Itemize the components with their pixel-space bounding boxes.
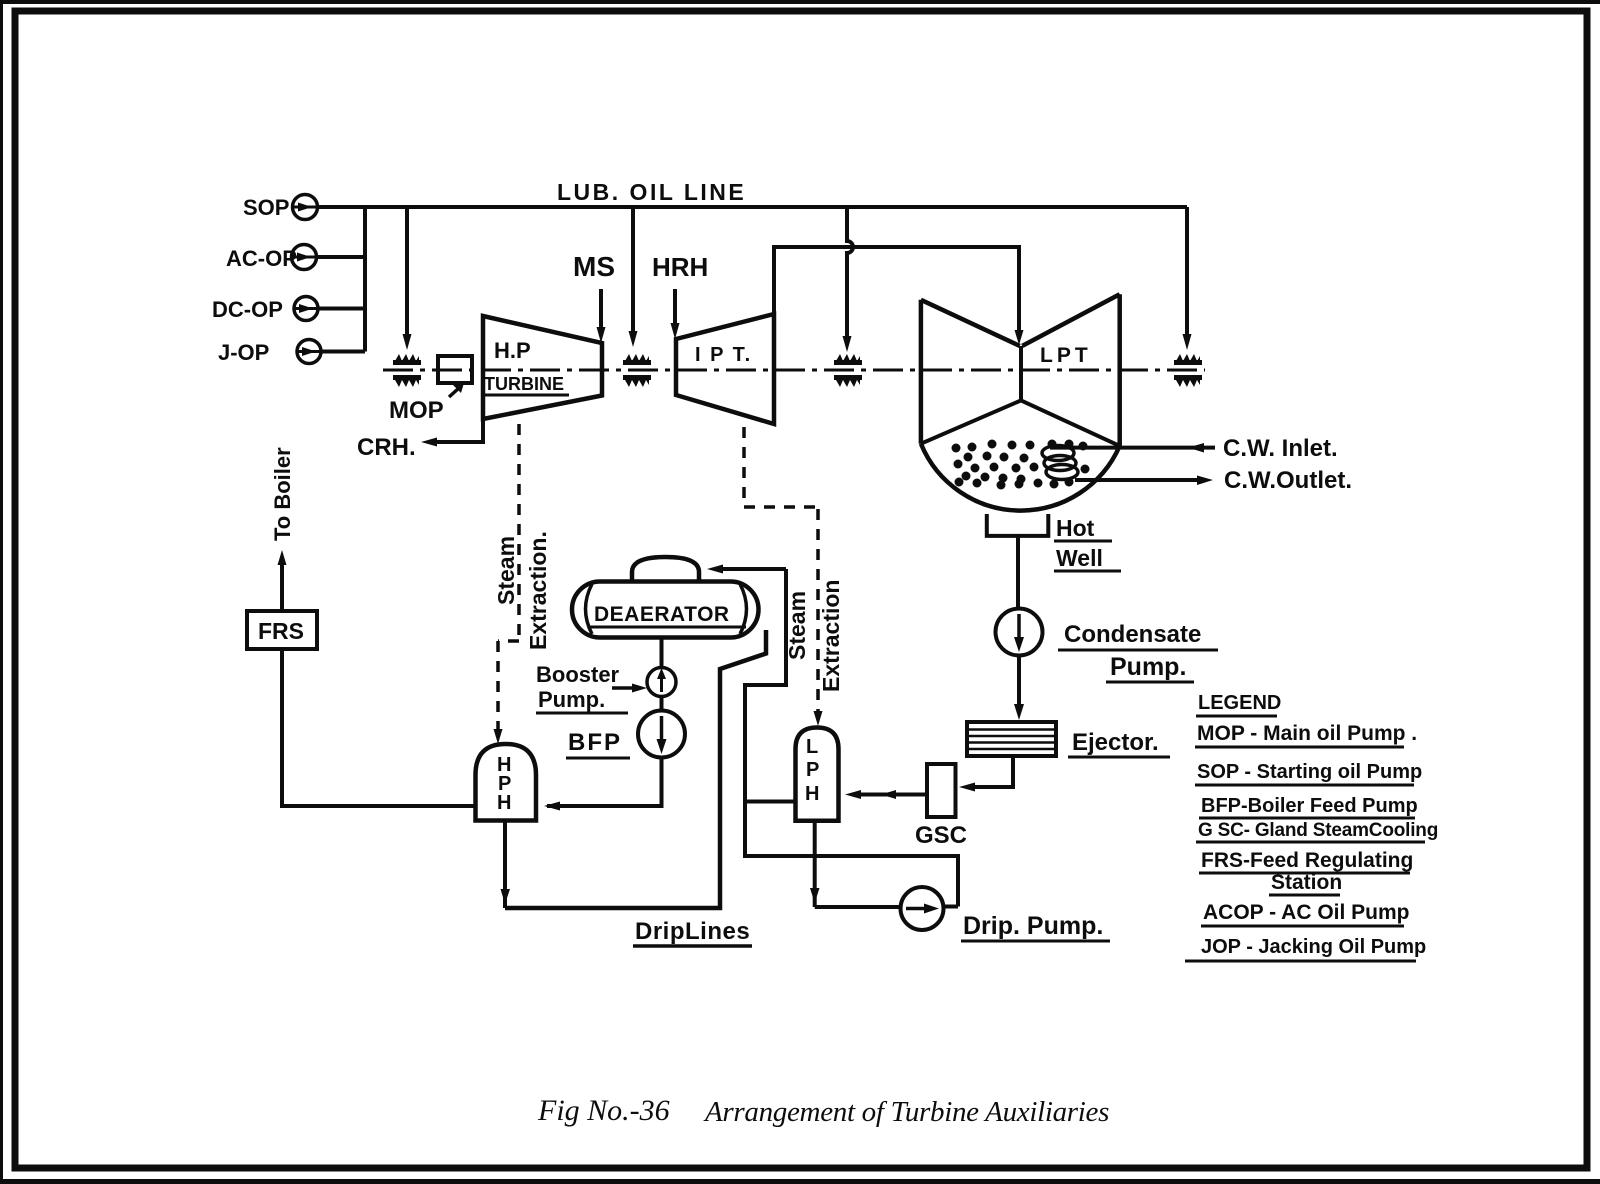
- pump DC-OP circle: [294, 297, 318, 321]
- svg-text:SOP: SOP: [243, 195, 289, 220]
- svg-text:MOP: MOP: [389, 397, 444, 424]
- ejector hatched box: [967, 722, 1056, 756]
- svg-text:MOP - Main oil Pump .: MOP - Main oil Pump .: [1197, 722, 1417, 745]
- wire HPH drain drip line with arrow: [501, 821, 511, 909]
- svg-text:DC-OP: DC-OP: [212, 297, 283, 322]
- bearing 3: [834, 354, 862, 387]
- svg-text:LUB. OIL LINE: LUB. OIL LINE: [557, 179, 746, 205]
- svg-text:SOP - Starting oil Pump: SOP - Starting oil Pump: [1197, 761, 1422, 783]
- svg-text:DripLines: DripLines: [635, 918, 750, 945]
- wire FRS to HPH: [282, 649, 476, 806]
- condenser LPT right wing top: [1022, 294, 1119, 346]
- legend JOP entry underlined: [1185, 936, 1426, 961]
- svg-text:C.W. Inlet.: C.W. Inlet.: [1223, 435, 1338, 462]
- border frame left edge strip: [0, 0, 3, 1184]
- hot well box: [987, 514, 1049, 536]
- wire AC-OP to bus: [316, 255, 365, 259]
- wire condensate into deaerator dome with arrow: [707, 565, 786, 574]
- deaerator cylinder: [572, 582, 759, 638]
- svg-text:J-OP: J-OP: [218, 340, 269, 365]
- condenser LPT center vertical: [1019, 346, 1023, 401]
- wire lub oil branch to bearing 2: [629, 207, 638, 347]
- deaerator dome: [632, 557, 699, 582]
- svg-text:C.W.Outlet.: C.W.Outlet.: [1224, 467, 1352, 494]
- wire FRS to boiler arrow: [278, 550, 287, 611]
- condenser LPT left edge: [919, 300, 924, 444]
- wire drip pump inlet line: [815, 905, 901, 909]
- wire C.W. inlet pipe with arrow: [1050, 443, 1215, 453]
- svg-text:JOP - Jacking Oil Pump: JOP - Jacking Oil Pump: [1201, 936, 1426, 958]
- svg-text:Fig No.-36: Fig No.-36: [537, 1094, 670, 1127]
- wire hot well to condensate pump: [1016, 536, 1020, 609]
- legend ACOP entry underlined: [1201, 901, 1410, 926]
- pump AC-OP circle: [292, 245, 317, 270]
- legend FRS entry underlined: [1199, 849, 1413, 895]
- border frame top edge strip: [0, 0, 1600, 4]
- legend GSC entry underlined: [1196, 820, 1438, 842]
- svg-text:Station: Station: [1271, 871, 1342, 894]
- svg-text:Well: Well: [1056, 545, 1103, 571]
- condenser LPT lower left diagonal: [921, 400, 1021, 443]
- border frame bottom edge strip: [0, 1179, 1600, 1184]
- svg-text:FRS-Feed Regulating: FRS-Feed Regulating: [1201, 849, 1413, 872]
- wire oil pump bus vertical: [363, 207, 367, 352]
- DripLines label underlined: [633, 918, 752, 946]
- wire CRH from HP turbine: [421, 419, 483, 447]
- wire lub oil main line: [317, 205, 1187, 209]
- FRS box: [247, 611, 317, 649]
- wire lub oil branch to bearing 3 with hop: [843, 207, 854, 352]
- svg-text:To Boiler: To Boiler: [270, 447, 295, 541]
- HPH label: [497, 754, 511, 814]
- svg-text:Drip. Pump.: Drip. Pump.: [963, 912, 1103, 940]
- wire C.W. outlet pipe with arrow: [1075, 476, 1213, 486]
- legend BFP entry underlined: [1199, 795, 1418, 818]
- bearing 4: [1174, 354, 1202, 387]
- svg-text:H.P: H.P: [494, 338, 531, 363]
- svg-text:DEAERATOR: DEAERATOR: [594, 603, 730, 626]
- legend SOP entry underlined: [1195, 761, 1422, 785]
- svg-text:AC-OP: AC-OP: [226, 246, 297, 271]
- svg-text:ACOP - AC Oil Pump: ACOP - AC Oil Pump: [1203, 901, 1410, 924]
- turbine IPT outline: [676, 314, 774, 424]
- wire J-OP to bus: [321, 350, 365, 354]
- svg-text:CRH.: CRH.: [357, 434, 416, 461]
- wire lub oil line end branch to bearing 4: [1183, 207, 1192, 350]
- deaerator left end cap arc: [586, 584, 593, 634]
- turbine HP outline: [483, 316, 602, 419]
- wire crossover pipe IPT to LPT: [774, 247, 1024, 345]
- Ejector label underlined: [1068, 729, 1170, 757]
- wire ejector to GSC: [959, 756, 1013, 792]
- svg-text:BFP-Boiler Feed Pump: BFP-Boiler Feed Pump: [1201, 795, 1418, 817]
- svg-text:H: H: [497, 792, 511, 814]
- condenser LPT left wing top: [921, 300, 1020, 346]
- svg-text:Extraction: Extraction: [818, 580, 844, 692]
- wire lub oil branch to bearing 1: [403, 207, 412, 350]
- BFP label underlined: [566, 729, 630, 758]
- Booster Pump label underlined with arrow: [536, 662, 647, 713]
- wire drip pump outlet to riser: [943, 905, 958, 909]
- svg-text:LPT: LPT: [1040, 344, 1092, 367]
- svg-text:Steam: Steam: [493, 536, 519, 605]
- bearing 1: [393, 354, 421, 387]
- heater LPH vessel: [796, 728, 839, 821]
- condenser steam dots: [952, 440, 1090, 490]
- bearing 2: [623, 354, 651, 387]
- wire HRH steam inlet arrow: [671, 289, 680, 339]
- condensate pump circle: [996, 609, 1043, 656]
- svg-text:MS: MS: [573, 251, 615, 282]
- Steam Extraction label 1 rotated: [493, 531, 551, 650]
- svg-text:Hot: Hot: [1056, 515, 1095, 541]
- svg-text:Condensate: Condensate: [1064, 621, 1201, 648]
- LPH label: [805, 736, 819, 805]
- shaft centerline: [383, 369, 1205, 372]
- wire booster pump to BFP: [660, 697, 664, 712]
- svg-text:Pump.: Pump.: [538, 687, 605, 712]
- condenser LPT lower right diagonal: [1021, 400, 1120, 446]
- wire LPH bottom drain with arrow: [810, 821, 820, 907]
- svg-text:TURBINE: TURBINE: [484, 374, 564, 394]
- svg-text:Arrangement of Turbine Auxilia: Arrangement of Turbine Auxiliaries: [703, 1096, 1109, 1128]
- pump J-OP circle: [297, 340, 321, 364]
- svg-text:Ejector.: Ejector.: [1072, 729, 1159, 756]
- svg-text:I P T.: I P T.: [695, 344, 752, 366]
- svg-text:LEGEND: LEGEND: [1198, 692, 1281, 714]
- dashed steam extraction line from IPT to LPH: [744, 427, 823, 726]
- condenser LPT right edge: [1117, 294, 1122, 446]
- Steam Extraction label 2 rotated: [784, 580, 844, 692]
- pump SOP circle: [293, 195, 318, 220]
- LEGEND title underlined: [1196, 692, 1281, 716]
- drip pump circle: [901, 887, 944, 930]
- wire condensate pump to ejector: [1014, 656, 1024, 721]
- svg-text:GSC: GSC: [915, 822, 967, 849]
- Drip Pump label underlined: [961, 912, 1110, 941]
- condenser cooling water coil: [1042, 446, 1078, 480]
- wire deaerator outlet to booster pump: [660, 637, 664, 668]
- Hot Well label underlined: [1054, 515, 1121, 571]
- HP TURBINE label underlined: [483, 374, 569, 395]
- wire LPH left outlet: [745, 800, 796, 804]
- BFP pump circle: [638, 711, 685, 758]
- legend MOP entry underlined: [1195, 722, 1417, 747]
- svg-text:HRH: HRH: [652, 252, 708, 282]
- booster pump circle: [647, 668, 676, 697]
- DEAERATOR label underlined: [590, 603, 746, 627]
- deaerator right end cap arc: [740, 584, 747, 634]
- svg-text:Booster: Booster: [536, 662, 620, 687]
- svg-text:FRS: FRS: [258, 618, 304, 644]
- svg-text:G SC- Gland SteamCooling: G SC- Gland SteamCooling: [1198, 820, 1438, 841]
- svg-text:BFP: BFP: [568, 729, 622, 756]
- main oil pump MOP box: [438, 356, 472, 383]
- MOP label pointer arrow: [449, 383, 464, 397]
- wire GSC to LPH with arrow: [845, 790, 927, 799]
- svg-text:Steam: Steam: [784, 591, 810, 660]
- wire DC-OP to bus: [318, 307, 365, 311]
- svg-text:Extraction.: Extraction.: [525, 531, 551, 650]
- svg-text:L: L: [806, 736, 818, 758]
- condenser LPT bowl arc: [921, 444, 1120, 511]
- svg-text:Pump.: Pump.: [1110, 653, 1186, 681]
- svg-text:H: H: [805, 783, 819, 805]
- wire drip lines header to deaerator: [505, 630, 766, 908]
- svg-text:P: P: [806, 759, 819, 781]
- GSC box: [927, 764, 956, 817]
- Condensate Pump label underlined: [1058, 621, 1218, 682]
- dashed steam extraction line from HP turbine to HPH: [494, 424, 520, 744]
- wire LPH condensate riser to deaerator: [745, 569, 958, 907]
- wire MS steam inlet arrow: [597, 289, 606, 343]
- wire BFP discharge to HPH with arrow: [544, 758, 662, 811]
- heater HPH vessel: [476, 744, 537, 821]
